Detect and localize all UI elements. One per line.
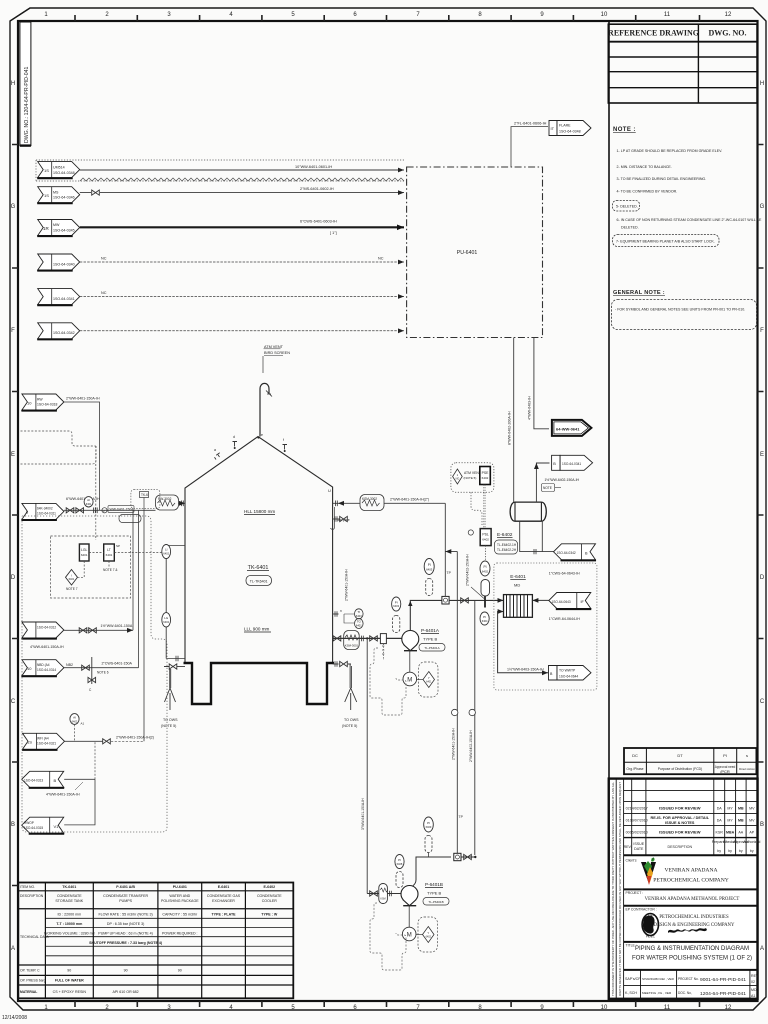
svg-text:AI: AI bbox=[73, 715, 76, 719]
svg-text:MY: MY bbox=[727, 819, 733, 823]
tank bottom with sump pits bbox=[184, 663, 335, 704]
right OWS label bbox=[342, 718, 359, 728]
suction line from tank bbox=[333, 637, 404, 639]
pump P-6401A bbox=[402, 631, 419, 651]
svg-text:FLOW RATE : 55 m3/hr (NOTE 3): FLOW RATE : 55 m3/hr (NOTE 3) bbox=[98, 913, 152, 917]
bottom flag y825 bbox=[22, 817, 64, 834]
svg-text:STORAGE TANK: STORAGE TANK bbox=[55, 899, 83, 903]
svg-text:DWG. NO.: 1204-64-PR-PID-041: DWG. NO.: 1204-64-PR-PID-041 bbox=[24, 66, 30, 143]
svg-text:s: s bbox=[746, 753, 748, 758]
svg-text:6401: 6401 bbox=[426, 680, 432, 683]
svg-text:REV: REV bbox=[751, 974, 759, 978]
dotted enclosure around flag 1 line bbox=[36, 160, 404, 181]
svg-text:2"WW-6402-150A-IH: 2"WW-6402-150A-IH bbox=[465, 554, 469, 586]
LLL label bbox=[244, 627, 271, 633]
flare line from PU box top bbox=[511, 122, 548, 168]
diamond by motor B bbox=[416, 917, 438, 952]
svg-text:F: F bbox=[11, 328, 15, 334]
pump label bbox=[419, 628, 445, 651]
svg-text:PROJECT :: PROJECT : bbox=[626, 891, 644, 895]
svg-text:P-6401A: P-6401A bbox=[421, 628, 440, 633]
svg-text:6- IN CASE OF NON RETURNING ST: 6- IN CASE OF NON RETURNING STEAM CONDEN… bbox=[617, 218, 762, 222]
svg-text:TYPE : PLATE: TYPE : PLATE bbox=[211, 913, 236, 917]
svg-text:Authorized: Authorized bbox=[743, 840, 760, 844]
svg-text:6408: 6408 bbox=[397, 862, 403, 866]
svg-text:1SO-64-0311: 1SO-64-0311 bbox=[37, 512, 56, 516]
svg-text:MB: MB bbox=[738, 807, 744, 811]
WWTP flag bbox=[549, 666, 592, 681]
svg-text:by: by bbox=[717, 849, 721, 853]
svg-text:MV: MV bbox=[749, 807, 755, 811]
svg-text:MEETING ,VG , VER: MEETING ,VG , VER bbox=[642, 991, 672, 995]
svg-text:AA: AA bbox=[738, 831, 743, 835]
svg-text:PI: PI bbox=[723, 753, 727, 758]
svg-text:1SO-64-0313: 1SO-64-0313 bbox=[24, 779, 43, 783]
svg-text:UM514: UM514 bbox=[53, 166, 65, 170]
svg-text:Purpose of Distribution (FCD): Purpose of Distribution (FCD) bbox=[658, 767, 702, 771]
svg-text:DA: DA bbox=[717, 807, 723, 811]
svg-text:PI: PI bbox=[483, 615, 486, 619]
roof nozzle c right slope bbox=[283, 438, 288, 452]
svg-text:by: by bbox=[739, 849, 743, 853]
svg-text:ID : 22000 mm: ID : 22000 mm bbox=[58, 913, 82, 917]
svg-text:M: M bbox=[407, 933, 412, 939]
ATM vent callout box bbox=[451, 463, 494, 527]
svg-text:[ 1"]: [ 1"] bbox=[330, 231, 337, 235]
return flag B y779 bbox=[22, 771, 64, 788]
svg-text:TG: TG bbox=[357, 620, 362, 624]
svg-text:TK-6: TK-6 bbox=[141, 493, 148, 497]
svg-text:4"WW-6401-150A-IH: 4"WW-6401-150A-IH bbox=[46, 793, 80, 797]
svg-text:NOTE 6: NOTE 6 bbox=[97, 671, 109, 675]
diamond by motor bbox=[417, 662, 438, 697]
svg-text:API 610 OR 682: API 610 OR 682 bbox=[113, 990, 139, 994]
pump B dashed blob bbox=[370, 903, 406, 970]
svg-text:PROJECT No.: PROJECT No. bbox=[678, 977, 699, 981]
svg-text:IT: IT bbox=[551, 126, 555, 131]
svg-text:ISSUE & NOTES: ISSUE & NOTES bbox=[665, 821, 695, 825]
svg-text:Client's: Client's bbox=[626, 859, 637, 863]
svg-text:F: F bbox=[760, 328, 764, 334]
svg-text:KSM: KSM bbox=[380, 898, 385, 901]
svg-text:D: D bbox=[11, 575, 16, 581]
svg-text:1SO-64-0644: 1SO-64-0644 bbox=[559, 675, 578, 679]
svg-text:2"WW-6401-150A-IH: 2"WW-6401-150A-IH bbox=[451, 728, 455, 760]
note 5 box bbox=[613, 201, 640, 212]
svg-text:CONDENSATE: CONDENSATE bbox=[57, 894, 82, 898]
CW flag right bbox=[549, 593, 592, 610]
discharge riser B bbox=[413, 857, 451, 886]
svg-text:f: f bbox=[283, 438, 284, 442]
svg-text:H: H bbox=[760, 81, 764, 87]
svg-text:ATM VENT: ATM VENT bbox=[464, 471, 481, 475]
AI bubble above WFI line bbox=[70, 714, 85, 742]
svg-text:10: 10 bbox=[27, 666, 32, 671]
svg-text:E: E bbox=[760, 452, 764, 458]
svg-text:DESIGN & ENGINEERING COMPANY: DESIGN & ENGINEERING COMPANY bbox=[654, 923, 736, 928]
svg-text:MY: MY bbox=[727, 807, 733, 811]
diamond interlock bbox=[66, 561, 85, 591]
svg-text:WW-6401-150A: WW-6401-150A bbox=[110, 508, 135, 512]
dip pipe nozzle stub bbox=[333, 516, 348, 522]
svg-text:NOTE: NOTE bbox=[543, 486, 552, 490]
wire line1 to PU box bbox=[80, 168, 404, 173]
svg-text:1S: 1S bbox=[44, 168, 49, 173]
left feed nozzle flex RW-3002 bbox=[156, 495, 186, 510]
check square + valve on discharge B bbox=[454, 853, 476, 860]
svg-text:TO WWTP: TO WWTP bbox=[559, 669, 576, 673]
svg-text:12: 12 bbox=[725, 12, 732, 18]
svg-text:PI: PI bbox=[395, 600, 398, 604]
svg-text:1SO-64-0314: 1SO-64-0314 bbox=[37, 668, 56, 672]
svg-text:1SO-64-0348: 1SO-64-0348 bbox=[559, 130, 581, 134]
discharge riser bbox=[408, 600, 442, 630]
drum outlet flag bbox=[554, 544, 597, 561]
svg-text:10"WW-6401-0601-IH: 10"WW-6401-0601-IH bbox=[295, 165, 332, 169]
svg-text:HLL 15800 mm: HLL 15800 mm bbox=[244, 509, 275, 514]
svg-text:WATER AND: WATER AND bbox=[169, 894, 190, 898]
svg-text:SHARIFABOUEI , VER: SHARIFABOUEI , VER bbox=[642, 977, 675, 981]
svg-text:6403: 6403 bbox=[356, 614, 362, 618]
svg-text:LG: LG bbox=[164, 616, 169, 620]
client section bbox=[624, 858, 758, 890]
svg-text:6401: 6401 bbox=[86, 502, 92, 506]
svg-text:NOTE :: NOTE : bbox=[613, 127, 636, 133]
dark flag (64-WW) bbox=[552, 420, 592, 436]
svg-text:1SO-64-0342: 1SO-64-0342 bbox=[557, 551, 576, 555]
svg-text:6401: 6401 bbox=[106, 553, 113, 557]
svg-text:1SO-64-0348: 1SO-64-0348 bbox=[53, 171, 75, 175]
svg-text:PI: PI bbox=[427, 821, 430, 825]
valve on line2 bbox=[92, 190, 100, 195]
diamond in callout bbox=[453, 469, 463, 484]
PG stack left of pump bbox=[392, 597, 401, 633]
svg-text:09/07/2010: 09/07/2010 bbox=[630, 819, 648, 823]
junction square bbox=[442, 596, 449, 604]
AI bubble on fill line bbox=[84, 497, 93, 507]
svg-text:6405: 6405 bbox=[426, 568, 433, 572]
title section bbox=[624, 944, 758, 970]
svg-text:FLARE: FLARE bbox=[559, 124, 571, 128]
svg-text:2"WW-6402-150A-IH: 2"WW-6402-150A-IH bbox=[469, 730, 473, 762]
svg-text:DESCRIPTION: DESCRIPTION bbox=[20, 894, 44, 898]
svg-text:VENIRAN APADANA: VENIRAN APADANA bbox=[664, 868, 717, 874]
svg-text:PETROCHEMICAL INDUSTRIES: PETROCHEMICAL INDUSTRIES bbox=[659, 915, 729, 920]
left tank drain bbox=[164, 664, 185, 710]
NOTE heading bbox=[613, 127, 762, 247]
svg-text:TO OWS: TO OWS bbox=[344, 718, 359, 722]
svg-text:TP: TP bbox=[447, 571, 452, 575]
svg-text:(NOTE 5): (NOTE 5) bbox=[464, 476, 477, 480]
PI above bbox=[480, 561, 490, 576]
strainer KSM-3001 bbox=[344, 631, 360, 650]
svg-text:PIDEC: PIDEC bbox=[646, 935, 656, 939]
svg-text:TYPE B: TYPE B bbox=[427, 891, 442, 896]
svg-text:MW: MW bbox=[53, 223, 60, 227]
svg-text:NC: NC bbox=[101, 257, 107, 261]
svg-text:6402: 6402 bbox=[482, 538, 489, 542]
svg-text:7- EQUIPMENT BEARING PLANET A/: 7- EQUIPMENT BEARING PLANET A/B ALSO STA… bbox=[616, 240, 715, 244]
svg-text:2"WW-6401-150A-IH: 2"WW-6401-150A-IH bbox=[66, 397, 100, 401]
svg-text:TYPE B: TYPE B bbox=[423, 637, 438, 642]
E-6402 label bbox=[495, 532, 518, 554]
svg-text:1SO-64-0321: 1SO-64-0321 bbox=[37, 742, 56, 746]
roof nozzle b bbox=[233, 435, 238, 449]
veniran apadana logo bbox=[641, 858, 656, 886]
svg-text:PSL: PSL bbox=[482, 533, 489, 537]
svg-text:5- DELETED.: 5- DELETED. bbox=[616, 205, 638, 209]
reducer w/ spade bbox=[380, 634, 386, 660]
svg-text:6"CWS-6401-0603-IH: 6"CWS-6401-0603-IH bbox=[300, 220, 337, 224]
dip pipe note bbox=[331, 507, 350, 529]
svg-text:1"CWR-64-0644-IH: 1"CWR-64-0644-IH bbox=[549, 617, 580, 621]
pump B label bbox=[423, 882, 449, 905]
svg-text:10: 10 bbox=[601, 12, 608, 18]
svg-text:ISSUED FOR REVIEW: ISSUED FOR REVIEW bbox=[659, 806, 701, 811]
svg-text:AI: AI bbox=[87, 498, 90, 502]
svg-text:A: A bbox=[11, 946, 15, 952]
revision table bbox=[624, 779, 758, 856]
exchanger E-6401 hatched bbox=[504, 595, 533, 618]
dashed enclosure around hose area bbox=[131, 490, 160, 509]
recirc line x457 down bbox=[451, 552, 463, 856]
svg-text:(NOTE 5): (NOTE 5) bbox=[161, 724, 176, 728]
svg-text:3"WW-6401-150A-IH: 3"WW-6401-150A-IH bbox=[361, 798, 365, 830]
CW inlet from right flag bbox=[532, 598, 548, 603]
outlet to WWTP bbox=[498, 609, 548, 675]
svg-text:1SO-64-0346: 1SO-64-0346 bbox=[53, 196, 75, 200]
svg-text:LGL: LGL bbox=[81, 548, 88, 552]
nozzle tag U at right wall top bbox=[328, 488, 331, 493]
svg-text:DATE: DATE bbox=[634, 847, 644, 851]
svg-text:PETROCHEMICAL COMPANY: PETROCHEMICAL COMPANY bbox=[653, 878, 729, 884]
svg-text:Y: Y bbox=[427, 931, 429, 935]
svg-text:POWER REQUIRED :: POWER REQUIRED : bbox=[162, 931, 198, 935]
svg-text:FOR WATER POLISHING SYSTEM (1: FOR WATER POLISHING SYSTEM (1 OF 2) bbox=[632, 956, 752, 962]
svg-text:CS + EPOXY RESIN: CS + EPOXY RESIN bbox=[53, 990, 87, 994]
svg-text:P-6401 A/B: P-6401 A/B bbox=[116, 885, 135, 889]
distribution table bbox=[624, 748, 756, 774]
svg-text:1S: 1S bbox=[44, 193, 49, 198]
heat trace zigzag bbox=[80, 178, 404, 181]
svg-text:RWOP: RWOP bbox=[24, 821, 34, 825]
recirc to tank: vertical from junction up bbox=[445, 503, 451, 596]
rotated disclaimer strip bbox=[611, 779, 624, 999]
flag 5 bbox=[37, 289, 79, 306]
suction valve 1 bbox=[333, 636, 341, 641]
flag 6 bbox=[37, 323, 79, 340]
svg-text:9001-64-PR-PID-041: 9001-64-PR-PID-041 bbox=[700, 977, 746, 983]
svg-text:RIGHTS RESERVED. IT MUST NOT B: RIGHTS RESERVED. IT MUST NOT BE COPIED R… bbox=[618, 782, 622, 996]
svg-text:6402: 6402 bbox=[426, 935, 432, 938]
svg-text:1SO-64-0643: 1SO-64-0643 bbox=[552, 600, 571, 604]
flag 10 WW top bbox=[21, 394, 64, 411]
svg-text:WFI (A4: WFI (A4 bbox=[37, 737, 49, 741]
HLL label bbox=[244, 509, 275, 515]
svg-text:4- TO BE CONFIRMED BY VENDOR.: 4- TO BE CONFIRMED BY VENDOR. bbox=[617, 190, 678, 194]
capsule above bbox=[481, 580, 490, 597]
svg-text:A1: A1 bbox=[751, 994, 755, 998]
svg-text:12/14/2008: 12/14/2008 bbox=[2, 1015, 27, 1021]
svg-text:CAPACITY : 55 m3/hr: CAPACITY : 55 m3/hr bbox=[162, 913, 198, 917]
svg-text:ATM VENT: ATM VENT bbox=[264, 345, 284, 349]
svg-text:B: B bbox=[54, 778, 57, 783]
dashes between LG LT and to standpipe bbox=[89, 553, 162, 568]
svg-text:DOC. No,: DOC. No, bbox=[678, 991, 692, 995]
svg-text:PUMPS: PUMPS bbox=[119, 899, 132, 903]
wire line3 thick bbox=[80, 220, 404, 236]
EP contractor section bbox=[624, 908, 758, 942]
svg-text:n: n bbox=[340, 609, 342, 613]
flag 2 bbox=[37, 187, 79, 204]
svg-text:6403: 6403 bbox=[393, 604, 399, 608]
svg-text:OP. PRESS barg: OP. PRESS barg bbox=[20, 979, 46, 983]
svg-text:11: 11 bbox=[664, 1005, 671, 1011]
svg-text:1½"WW-6403-150A-IH: 1½"WW-6403-150A-IH bbox=[507, 668, 544, 672]
svg-text:11: 11 bbox=[664, 12, 671, 18]
svg-text:TL-P6401A: TL-P6401A bbox=[424, 646, 439, 650]
svg-text:ISSUED FOR REVIEW: ISSUED FOR REVIEW bbox=[659, 830, 701, 835]
svg-text:PI: PI bbox=[483, 565, 486, 569]
E-6401 label bbox=[510, 574, 526, 588]
svg-text:SAP's/CP: SAP's/CP bbox=[625, 977, 641, 981]
svg-text:2"WW-6401-150A-IH(2"): 2"WW-6401-150A-IH(2") bbox=[390, 498, 429, 502]
svg-text:NB2: NB2 bbox=[66, 663, 73, 667]
svg-text:12: 12 bbox=[725, 1005, 732, 1011]
svg-text:1½"WW-6402-150A-IH: 1½"WW-6402-150A-IH bbox=[545, 478, 580, 482]
svg-text:8"WW-6402-200A-IH: 8"WW-6402-200A-IH bbox=[508, 411, 512, 445]
GENERAL NOTE bbox=[612, 290, 757, 330]
svg-text:PI: PI bbox=[428, 563, 431, 567]
drum top vent riser to flag bbox=[534, 463, 550, 502]
svg-text:6402: 6402 bbox=[72, 719, 78, 723]
flare flag bbox=[549, 121, 591, 136]
svg-text:/PCR: /PCR bbox=[720, 769, 730, 774]
svg-text:NO: NO bbox=[456, 477, 460, 480]
drum bottom outlet to flag bbox=[520, 521, 554, 554]
E-6401 feed down-line bbox=[469, 600, 476, 855]
svg-text:V1: V1 bbox=[54, 824, 60, 829]
svg-text:DESCRIPTION: DESCRIPTION bbox=[668, 845, 693, 849]
svg-text:1SO-64-0341: 1SO-64-0341 bbox=[562, 462, 581, 466]
svg-text:90: 90 bbox=[67, 969, 71, 973]
svg-text:1S: 1S bbox=[27, 740, 32, 745]
instrument dashed box LG LT bbox=[51, 536, 131, 598]
svg-text:GENERAL NOTE :: GENERAL NOTE : bbox=[613, 290, 665, 296]
svg-text:1204-64-PR-PID-041: 1204-64-PR-PID-041 bbox=[700, 991, 746, 997]
svg-text:OP. TEMP. C: OP. TEMP. C bbox=[20, 969, 40, 973]
svg-text:ISSUE: ISSUE bbox=[633, 842, 644, 846]
wire line2 bbox=[80, 187, 404, 195]
motor M bbox=[403, 651, 417, 686]
flag line y667 bbox=[21, 660, 73, 677]
svg-text:Y: Y bbox=[428, 676, 430, 680]
PI below orifice bbox=[480, 612, 489, 625]
svg-text:REV.: REV. bbox=[624, 845, 632, 849]
svg-text:05/02/2010: 05/02/2010 bbox=[630, 831, 648, 835]
pidec logo bbox=[642, 913, 658, 939]
PI + capsule at x429 bbox=[424, 559, 434, 596]
svg-text:64K-34002: 64K-34002 bbox=[37, 507, 53, 511]
PI capsule stack on discharge bbox=[424, 817, 434, 857]
svg-text:a: a bbox=[214, 448, 216, 452]
main fill wire bbox=[64, 501, 185, 510]
svg-text:A: A bbox=[760, 946, 764, 952]
svg-text:- FOR SYMBOL AND GENERAL NOTES: - FOR SYMBOL AND GENERAL NOTES SEE UNITS… bbox=[615, 308, 745, 312]
drum shell bbox=[510, 502, 546, 521]
svg-text:M: M bbox=[407, 678, 412, 684]
wire line6 bbox=[80, 328, 404, 333]
dwg no vertical strip box bbox=[20, 22, 31, 146]
svg-text:6404: 6404 bbox=[482, 619, 488, 623]
project section bbox=[624, 891, 758, 906]
svg-text:MBA: MBA bbox=[726, 831, 735, 835]
svg-text:P-6401B: P-6401B bbox=[425, 882, 443, 887]
line to exchanger bbox=[449, 598, 503, 603]
svg-text:6402: 6402 bbox=[482, 476, 489, 480]
svg-text:DC: DC bbox=[632, 753, 638, 758]
pump A dashed blob bbox=[370, 648, 406, 715]
rotated pipe label near right drain bbox=[345, 569, 349, 601]
svg-text:E-6402: E-6402 bbox=[264, 885, 276, 889]
svg-text:MATERIAL: MATERIAL bbox=[20, 990, 37, 994]
tie-in node bbox=[474, 856, 476, 858]
valves on fill line bbox=[66, 508, 97, 514]
svg-text:PU-6401: PU-6401 bbox=[173, 885, 187, 889]
svg-text:AP: AP bbox=[749, 831, 754, 835]
svg-text:CONDENSATE GAS: CONDENSATE GAS bbox=[207, 894, 241, 898]
svg-text:KSM-3002: KSM-3002 bbox=[362, 497, 377, 501]
svg-text:LT: LT bbox=[107, 548, 111, 552]
LT square bbox=[104, 544, 120, 561]
svg-text:2"CWS-6401-150A: 2"CWS-6401-150A bbox=[102, 662, 133, 666]
svg-text:ITEM NO.: ITEM NO. bbox=[20, 885, 35, 889]
signal dashed lines to border bbox=[21, 431, 97, 540]
svg-text:THIS DOCUMENT IS THE PROPERTY: THIS DOCUMENT IS THE PROPERTY OF PIDEC. … bbox=[611, 782, 615, 996]
svg-text:NBD (A4: NBD (A4 bbox=[37, 663, 50, 667]
pump P-6401B bbox=[401, 886, 418, 906]
svg-text:1R: 1R bbox=[43, 226, 50, 231]
svg-text:DELETED.: DELETED. bbox=[621, 226, 639, 230]
svg-text:6401: 6401 bbox=[81, 553, 88, 557]
svg-text:1½"WW-6401-150A: 1½"WW-6401-150A bbox=[101, 624, 133, 628]
svg-text:CONDENSATE TRANSFER: CONDENSATE TRANSFER bbox=[103, 894, 148, 898]
TK-6401 label bbox=[246, 565, 272, 586]
svg-text:PSE: PSE bbox=[482, 471, 490, 475]
recirc branch arrow from x457 bbox=[445, 549, 457, 554]
svg-text:90: 90 bbox=[124, 969, 128, 973]
svg-text:WORKING VOLUME : 3280 m3: WORKING VOLUME : 3280 m3 bbox=[44, 931, 95, 935]
svg-text:2"WW-6401-150A-IH: 2"WW-6401-150A-IH bbox=[345, 569, 349, 601]
svg-text:1"CWS-64-0643-IH: 1"CWS-64-0643-IH bbox=[549, 572, 580, 576]
svg-text:PUMP UP HEAD : 63 m (NOTE 4): PUMP UP HEAD : 63 m (NOTE 4) bbox=[98, 931, 153, 935]
svg-text:6"WW-6401-150A-IH: 6"WW-6401-150A-IH bbox=[66, 497, 100, 501]
svg-text:G: G bbox=[760, 204, 765, 210]
boxed pipe label on fill line bbox=[102, 506, 134, 513]
svg-text:E-6402: E-6402 bbox=[497, 532, 513, 538]
flag 4 bbox=[37, 254, 79, 271]
svg-text:C: C bbox=[760, 699, 765, 705]
svg-text:C: C bbox=[11, 699, 16, 705]
flanges + valve 2 bbox=[362, 636, 378, 642]
svg-text:TL-E6402-2H: TL-E6402-2H bbox=[497, 548, 517, 552]
vent riser with gooseneck bbox=[260, 383, 272, 436]
svg-text:RE-IS. FOR APPROVAL / DETAIL: RE-IS. FOR APPROVAL / DETAIL bbox=[651, 816, 710, 820]
svg-text:MD: MD bbox=[514, 583, 520, 588]
svg-text:LLL 900 mm: LLL 900 mm bbox=[244, 627, 270, 632]
wire line5 bbox=[80, 291, 404, 299]
svg-text:2"WW-6401-150A-IH(2): 2"WW-6401-150A-IH(2) bbox=[116, 736, 154, 740]
